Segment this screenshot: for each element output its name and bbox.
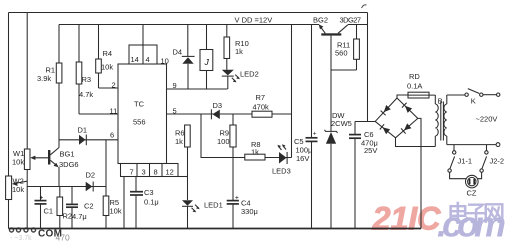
- bridge diode top-left: [384, 105, 391, 112]
- wire pin11: [79, 113, 118, 115]
- potentiometer W1: [12, 13, 48, 229]
- capacitor C1: [35, 187, 54, 229]
- svg-text:470: 470: [56, 233, 70, 243]
- svg-text:2CW5: 2CW5: [331, 119, 352, 128]
- wire pin7 to ground: [123, 177, 125, 229]
- wire pin9 net: [167, 88, 228, 90]
- svg-text:LED1: LED1: [204, 201, 223, 210]
- socket CZ: [450, 172, 482, 197]
- svg-text:K: K: [471, 97, 476, 106]
- diode D3: [211, 101, 222, 119]
- resistor R8 1k: [245, 140, 265, 160]
- svg-text:10: 10: [161, 57, 169, 66]
- wire pin5 net: [167, 113, 292, 115]
- svg-text:470k: 470k: [253, 103, 270, 112]
- transformer B: [435, 95, 447, 147]
- scan speck artifact: [362, 5, 367, 8]
- svg-text:LED3: LED3: [272, 167, 291, 176]
- resistor R2: [57, 187, 72, 229]
- wire bridge minus to ground: [418, 118, 421, 228]
- svg-text:10k: 10k: [12, 185, 24, 194]
- capacitor C6 470u 25V: [349, 122, 378, 229]
- transistor BG2 3DG27: [313, 16, 361, 71]
- fuse RD 0.1A: [397, 72, 435, 98]
- resistor R11 560: [331, 25, 359, 71]
- svg-text:V DD =12V: V DD =12V: [235, 16, 273, 25]
- svg-text:D1: D1: [78, 126, 88, 135]
- resistor R4 10k: [96, 25, 114, 89]
- svg-text:1k: 1k: [235, 47, 243, 56]
- svg-text:3DG6: 3DG6: [59, 160, 79, 169]
- svg-text:D2: D2: [86, 171, 96, 180]
- resistor R3 4.7k: [76, 25, 93, 115]
- wire LED branch net: [201, 114, 292, 158]
- potentiometer W2: [6, 176, 28, 200]
- svg-text:14: 14: [131, 55, 139, 64]
- svg-text:+: +: [313, 131, 317, 138]
- watermark 21IC.com bottom right: [372, 201, 507, 245]
- LED2: [222, 70, 259, 90]
- svg-text:LED2: LED2: [240, 70, 259, 79]
- diode D4: [173, 25, 195, 90]
- bridge diode bottom-left: [383, 127, 391, 134]
- IC top pins box 14 4: [129, 25, 157, 65]
- wire DC+ to bridge left corner: [355, 121, 375, 123]
- svg-text:4.7μ: 4.7μ: [72, 212, 87, 221]
- svg-text:3.9k: 3.9k: [37, 74, 51, 83]
- svg-text:6: 6: [110, 131, 114, 140]
- wire LED3 to VDD vertical: [291, 25, 293, 158]
- svg-text:10k: 10k: [101, 63, 113, 72]
- svg-text:9: 9: [173, 81, 177, 90]
- resistor R10 1k: [224, 25, 249, 70]
- wire bridge bottom to transformer: [396, 138, 436, 147]
- svg-text:5: 5: [173, 107, 177, 116]
- svg-text:3DG27: 3DG27: [340, 16, 362, 25]
- capacitor C4 330u: [227, 158, 258, 229]
- svg-text:D3: D3: [213, 101, 223, 110]
- transistor BG1 3DG6: [48, 148, 79, 187]
- capacitor C5 100u 16V: [294, 25, 318, 229]
- svg-text:BG1: BG1: [60, 150, 75, 159]
- diode D1: [59, 126, 118, 146]
- svg-text:R3: R3: [82, 75, 92, 84]
- border frame right: [367, 13, 369, 122]
- ground rail bottom: [9, 228, 422, 230]
- svg-text:1k: 1k: [175, 137, 183, 146]
- svg-text:0.1μ: 0.1μ: [144, 198, 159, 207]
- watermark remnants bottom left: [10, 228, 70, 243]
- LED3: [272, 144, 291, 175]
- bridge diode bottom-right: [404, 123, 411, 130]
- wire VDD rail: [59, 24, 319, 26]
- svg-text:3: 3: [142, 168, 146, 177]
- bridge diode top-right: [405, 106, 412, 113]
- svg-text:21IC: 21IC: [372, 201, 442, 237]
- svg-text:C1: C1: [44, 207, 54, 216]
- resistor R1 3.9k: [37, 25, 62, 148]
- svg-text:BG2: BG2: [313, 16, 328, 25]
- wire BG2 collector to right border: [348, 24, 368, 26]
- IC bottom pins box 7 3 8 12: [121, 164, 188, 177]
- wire transformer to switch K: [447, 94, 465, 96]
- border frame top: [9, 12, 368, 14]
- svg-text:16V: 16V: [296, 154, 309, 163]
- IC 556 box: [118, 64, 167, 164]
- capacitor C2 4.7u: [66, 187, 94, 229]
- svg-text:1k: 1k: [251, 148, 259, 157]
- wire pin2: [99, 87, 119, 89]
- svg-text:TC: TC: [134, 100, 145, 109]
- resistor R5 10k: [103, 140, 122, 229]
- wire emitter net to D2 R5: [27, 186, 106, 188]
- bridge rectifier diamond: [375, 98, 418, 138]
- svg-text:C2: C2: [84, 202, 94, 211]
- LED1: [182, 147, 223, 229]
- svg-text:556: 556: [133, 118, 146, 127]
- svg-text:J1-1: J1-1: [458, 157, 473, 166]
- svg-text:- ~3.7k: - ~3.7k: [10, 235, 32, 242]
- svg-text:CZ: CZ: [467, 189, 477, 198]
- svg-text:25V: 25V: [364, 146, 377, 155]
- wire 220V neutral line: [447, 144, 496, 146]
- zener diode DW 2CW5: [325, 70, 352, 229]
- svg-text:8: 8: [154, 168, 158, 177]
- svg-text:.com: .com: [437, 204, 506, 245]
- svg-text:10k: 10k: [12, 158, 24, 167]
- svg-text:C3: C3: [144, 188, 154, 197]
- border frame left: [8, 13, 10, 229]
- terminal circle neutral: [496, 143, 500, 147]
- diode D2: [86, 171, 96, 192]
- svg-text:D4: D4: [173, 48, 183, 57]
- svg-text:+: +: [235, 195, 239, 202]
- capacitor C3 0.1u: [130, 177, 159, 229]
- svg-text:4: 4: [146, 55, 150, 64]
- svg-text:R4: R4: [103, 49, 113, 58]
- svg-text:100: 100: [217, 137, 230, 146]
- svg-text:7: 7: [130, 168, 134, 177]
- svg-text:10k: 10k: [110, 207, 122, 216]
- svg-text:12: 12: [166, 168, 174, 177]
- svg-text:J: J: [204, 57, 210, 67]
- svg-text:+: +: [40, 195, 44, 202]
- svg-text:2: 2: [112, 81, 116, 90]
- svg-text:R7: R7: [256, 93, 266, 102]
- svg-text:0.1A: 0.1A: [407, 82, 422, 91]
- svg-text:B: B: [438, 97, 443, 106]
- svg-text:330μ: 330μ: [241, 207, 258, 216]
- relay contact J2-2: [480, 145, 504, 173]
- svg-text:J2-2: J2-2: [490, 157, 505, 166]
- relay coil J: [200, 25, 213, 90]
- relay contact J1-1: [448, 145, 472, 173]
- resistor R9 100: [217, 114, 236, 158]
- svg-text:560: 560: [335, 49, 348, 58]
- resistor R7 470k: [252, 93, 272, 117]
- svg-text:~220V: ~220V: [476, 115, 498, 124]
- svg-text:4.7k: 4.7k: [79, 90, 93, 99]
- svg-text:11: 11: [110, 107, 118, 116]
- svg-text:RD: RD: [409, 72, 420, 81]
- resistor R6 1k: [175, 125, 190, 147]
- switch K: [465, 89, 500, 106]
- svg-text:R2: R2: [63, 212, 73, 221]
